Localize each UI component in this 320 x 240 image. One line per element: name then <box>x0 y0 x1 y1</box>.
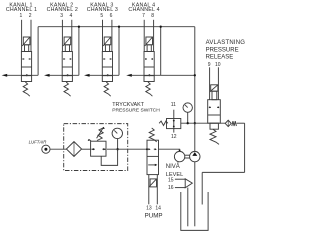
return spring V1 <box>23 82 30 96</box>
return line horizontal <box>202 171 244 173</box>
junction gauge/main line <box>187 122 189 124</box>
svg-text:9: 9 <box>208 62 211 68</box>
port line 6 <box>111 20 113 52</box>
port marks V2 <box>63 58 65 60</box>
reservoir tank <box>181 192 208 230</box>
svg-text:CHANNEL 2: CHANNEL 2 <box>47 7 78 13</box>
svg-text:CHANNEL 1: CHANNEL 1 <box>6 7 37 13</box>
svg-text:TRYCKVAKT: TRYCKVAKT <box>112 102 145 108</box>
pilot diagonal release valve <box>210 85 218 92</box>
port marks V4 <box>145 58 147 60</box>
svg-text:16: 16 <box>168 185 174 191</box>
neck V4 <box>147 45 151 52</box>
filter F1 <box>66 142 81 157</box>
valve body V4 <box>144 52 154 76</box>
valve body V2 <box>62 52 72 76</box>
neck V3 <box>105 45 109 52</box>
wire filter to regulator <box>82 148 91 150</box>
regulator adjust spring <box>97 128 104 141</box>
svg-text:AIR: AIR <box>38 139 46 144</box>
svg-text:CHANNEL 4: CHANNEL 4 <box>128 7 159 13</box>
level switch pipe <box>187 188 189 227</box>
flow junction V1 <box>26 74 28 76</box>
return spring V3 <box>104 82 111 96</box>
body divider V2 <box>62 66 72 68</box>
gauge stem <box>187 112 189 123</box>
channel valve V4 group <box>128 2 159 96</box>
silencer baffle zigzag <box>232 121 237 126</box>
port line 5 <box>102 20 104 52</box>
bus drop V2 <box>78 27 80 76</box>
port line 9 <box>209 67 211 99</box>
port marks V1 <box>23 58 25 60</box>
pilot diagonal V2 <box>63 37 71 46</box>
air service unit enclosure (dash-dot box) <box>64 124 128 171</box>
switch line to label <box>173 129 175 133</box>
return pipe into tank <box>201 172 203 204</box>
neck V1 <box>25 45 29 52</box>
body divider V4 <box>144 66 154 68</box>
bus drop V3 <box>118 27 120 76</box>
wire 15 to level switch <box>175 178 185 180</box>
main pressure line <box>181 122 226 124</box>
junction bus/V4 <box>160 26 162 28</box>
port line 4 <box>71 20 73 52</box>
shaft coupling <box>185 154 190 156</box>
flow junction V4 <box>148 74 150 76</box>
pump valve body <box>147 140 159 174</box>
pilot diagonal pump valve <box>149 179 157 187</box>
switch signal line up <box>173 110 175 119</box>
pump P <box>190 151 200 161</box>
svg-text:3: 3 <box>60 13 63 19</box>
pilot box V3 <box>104 37 111 45</box>
exhaust silencer diamond <box>225 120 231 126</box>
port line 8 <box>153 20 155 52</box>
pump valve flow arrow <box>148 164 155 166</box>
pressure regulator R1 <box>88 139 106 156</box>
air inlet port <box>42 145 50 153</box>
channel valve V1 group <box>6 2 37 96</box>
air line regulator to pump valve <box>107 148 147 150</box>
port line 7 <box>143 20 145 52</box>
spring seat V2 <box>62 76 72 82</box>
svg-text:1: 1 <box>20 13 23 19</box>
svg-text:5: 5 <box>100 13 103 19</box>
spring seat V1 <box>21 76 31 82</box>
spring pump valve <box>149 128 157 142</box>
port line 13 <box>148 175 150 205</box>
port line 2 <box>30 20 32 52</box>
exhaust rail segment 2 <box>44 74 50 77</box>
pump valve divider <box>147 155 159 157</box>
neck V2 <box>65 45 69 52</box>
svg-text:2: 2 <box>29 13 32 19</box>
service gauge <box>112 128 122 149</box>
release body divider <box>208 114 221 116</box>
junction gauge/air line <box>116 148 118 150</box>
switch contact arrow lower <box>173 125 175 127</box>
spring seat V3 <box>102 76 112 82</box>
svg-text:4: 4 <box>70 13 73 19</box>
channel valve V3 group <box>87 2 118 96</box>
wire silencer to return drop <box>237 122 245 124</box>
svg-text:PRESSURE SWITCH: PRESSURE SWITCH <box>112 108 160 114</box>
wire pump valve to air motor <box>159 148 180 151</box>
port line 14 <box>156 175 158 205</box>
release valve body <box>208 100 221 124</box>
port line 1 <box>21 20 23 52</box>
junction riser/rail <box>194 74 196 76</box>
svg-text:RELEASE: RELEASE <box>206 55 234 61</box>
pilot diagonal V1 <box>22 37 30 46</box>
pump outlet triangle <box>192 152 197 156</box>
pilot box V2 <box>64 37 71 45</box>
pump suction pipe <box>194 162 196 227</box>
port marks release valve <box>209 106 211 108</box>
wire inlet to filter <box>50 148 67 150</box>
svg-text:8: 8 <box>151 13 154 19</box>
flow arrow into motor <box>178 150 180 152</box>
switch spring <box>159 121 168 125</box>
return spring V2 <box>64 82 71 96</box>
port line 10 <box>217 67 219 99</box>
channel valve V2 group <box>47 2 78 96</box>
exhaust rail segment 3 <box>84 74 90 77</box>
valve body V1 <box>21 52 31 76</box>
exhaust rail segment 4 <box>126 74 132 77</box>
supply bus (top) <box>38 26 195 28</box>
wire 16 to level switch <box>175 187 185 189</box>
svg-text:14: 14 <box>155 205 161 211</box>
svg-text:6: 6 <box>110 13 113 19</box>
svg-text:LUFT: LUFT <box>29 139 40 144</box>
body divider V1 <box>21 66 31 68</box>
pilot box V1 <box>23 37 30 45</box>
pressure release valve group <box>206 40 246 144</box>
flow junction V2 <box>67 74 69 76</box>
svg-text:13: 13 <box>146 205 152 211</box>
svg-text:NIVÅ: NIVÅ <box>166 163 180 170</box>
spring seat release valve <box>210 123 218 129</box>
body divider V3 <box>102 66 112 68</box>
pressure gauge 11 <box>183 103 192 124</box>
pump valve top cell marks <box>146 148 148 150</box>
return line drop <box>244 123 246 172</box>
bus drop V1 <box>37 27 39 76</box>
svg-text:PUMP: PUMP <box>145 213 163 220</box>
return spring release valve <box>210 129 219 144</box>
svg-text:CHANNEL 3: CHANNEL 3 <box>87 7 118 13</box>
svg-text:10: 10 <box>215 62 221 68</box>
neck release valve <box>212 91 217 100</box>
svg-text:11: 11 <box>171 102 176 108</box>
valve body V3 <box>102 52 112 76</box>
port marks V3 <box>103 58 105 60</box>
pilot diagonal V3 <box>103 37 111 46</box>
switch box 12 <box>167 119 181 129</box>
svg-text:12: 12 <box>171 134 177 140</box>
air motor M <box>174 151 184 161</box>
svg-text:PRESSURE: PRESSURE <box>206 48 239 54</box>
port line 3 <box>61 20 63 52</box>
main supply riser <box>194 27 196 152</box>
pressure switch 12 group <box>159 110 181 133</box>
pilot box pump valve <box>150 179 156 187</box>
flow junction V3 <box>107 74 109 76</box>
pilot box release valve <box>211 85 218 91</box>
junction bus/V2 <box>78 26 80 28</box>
pilot box V4 <box>146 37 153 45</box>
service gauge stem <box>117 139 119 150</box>
return spring V4 <box>146 82 153 96</box>
junction bus/V3 <box>118 26 120 28</box>
pilot diagonal V4 <box>145 37 153 46</box>
svg-text:7: 7 <box>142 13 145 19</box>
bus drop V4 <box>160 27 162 76</box>
svg-text:15: 15 <box>168 177 174 183</box>
switch contact arrow upper <box>173 120 175 122</box>
spring seat V4 <box>144 76 154 82</box>
pump control valve group <box>146 128 159 204</box>
level switch float <box>185 179 192 188</box>
junction riser/main line <box>194 122 196 124</box>
exhaust rail segment 1 <box>2 74 8 77</box>
switch plunger line <box>173 119 175 129</box>
regulator feedback loop <box>101 149 117 165</box>
svg-text:AVLASTNING: AVLASTNING <box>206 40 246 46</box>
